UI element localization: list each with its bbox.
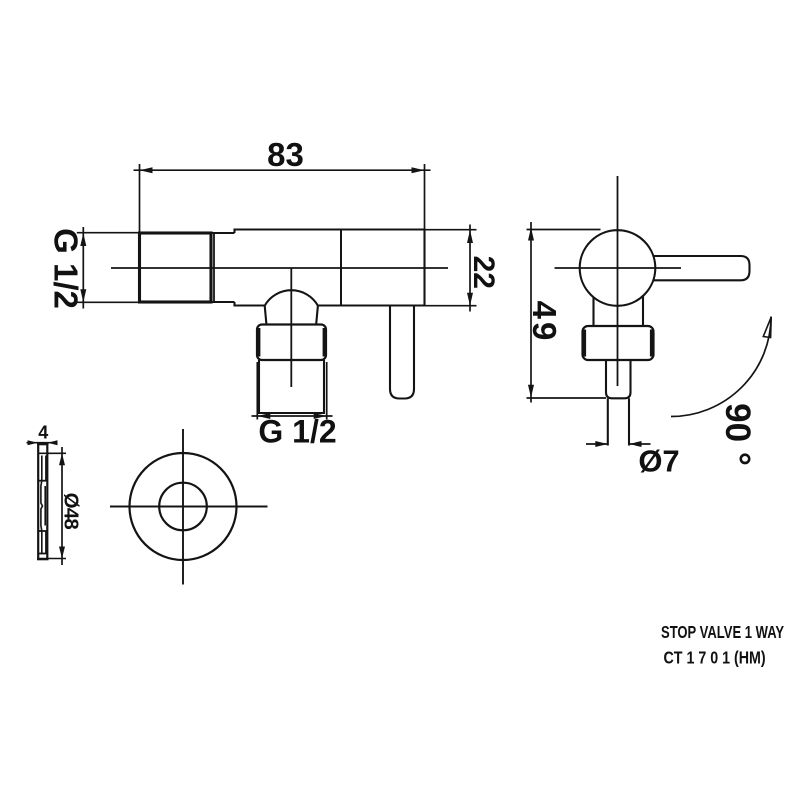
vertical centerline of outlet — [290, 268, 292, 387]
arrowhead 4 right — [48, 440, 58, 445]
inner column lower — [42, 531, 46, 554]
arrowhead Ø7 left — [595, 441, 608, 447]
nut right thick edge — [650, 330, 654, 357]
dim line 22 — [469, 225, 471, 312]
stem right line — [642, 296, 644, 326]
dim line 49 — [530, 222, 532, 403]
flange top cap — [37, 443, 49, 445]
main body outline — [235, 230, 425, 306]
spindle right — [628, 398, 630, 445]
flange bottom cap — [37, 558, 49, 560]
arrowhead bottom right — [314, 413, 327, 419]
nut left thick edge — [257, 328, 261, 357]
dim arrow line right — [629, 443, 651, 445]
extension line Ø48 top — [39, 452, 66, 454]
extension line 83 left — [139, 164, 141, 233]
dim line G1/2 bottom — [252, 415, 333, 417]
crosshair vertical — [182, 429, 184, 585]
extension line 22 bottom — [425, 305, 477, 307]
small outlet pipe (side view) — [390, 306, 414, 399]
horizontal centerline — [111, 267, 448, 269]
dim line G1/2 left — [82, 227, 84, 309]
lever handle — [653, 256, 750, 280]
arrowhead Ø48 bottom — [59, 547, 65, 559]
svg-text:83: 83 — [267, 136, 304, 173]
extension line 49 top — [527, 229, 601, 231]
crosshair horizontal — [110, 506, 268, 508]
arrowhead G1/2 top — [80, 233, 86, 246]
svg-text:CT 1 7 0 1 (HM): CT 1 7 0 1 (HM) — [664, 649, 766, 668]
arrowhead 49 bottom — [528, 385, 534, 398]
extension line Ø48 bottom — [39, 558, 66, 560]
arrowhead 83 right — [412, 167, 425, 173]
svg-text:22: 22 — [467, 256, 500, 289]
divider lower — [38, 530, 47, 532]
svg-text:90 °: 90 ° — [718, 403, 757, 466]
extension line 22 top — [425, 229, 477, 231]
arc 90deg — [671, 317, 771, 417]
arrowhead G1/2 bottom — [80, 289, 86, 302]
arrowhead Ø48 top — [59, 453, 65, 465]
dim line Ø48 — [61, 447, 63, 565]
arrowhead 4 left — [28, 440, 38, 445]
chamfer line right of threaded section — [213, 233, 215, 302]
inner circle — [159, 483, 207, 531]
neck bottom line — [211, 301, 235, 303]
flange right edge — [46, 444, 48, 561]
extension line G1/2 bottom — [77, 301, 140, 303]
dim arrow line left — [586, 443, 608, 445]
extension line bottom-right — [326, 362, 328, 420]
nut left thick edge — [582, 330, 586, 357]
svg-text:G 1/2: G 1/2 — [258, 414, 336, 450]
nut right thick edge — [323, 328, 327, 357]
extension line bottom-left — [256, 362, 258, 420]
horizontal centerline — [555, 267, 682, 269]
svg-text:STOP VALVE 1 WAY: STOP VALVE 1 WAY — [661, 623, 785, 642]
svg-text:G 1/2: G 1/2 — [48, 228, 85, 309]
arrowhead 83 left — [140, 167, 153, 173]
extension line G1/2 top — [77, 232, 140, 234]
spindle left — [607, 398, 609, 445]
svg-text:4: 4 — [38, 423, 48, 443]
nut front view — [583, 326, 654, 360]
neck top line — [211, 232, 235, 234]
knob circle — [580, 230, 656, 306]
svg-text:Ø48: Ø48 — [60, 493, 83, 530]
svg-text:Ø7: Ø7 — [638, 444, 679, 479]
arrowhead Ø7 right — [629, 441, 642, 447]
flange left edge — [37, 444, 39, 561]
dome right side — [316, 306, 318, 324]
svg-text:49: 49 — [526, 301, 563, 344]
threaded inlet section (thick rect) — [140, 233, 212, 302]
outlet dome arc — [265, 290, 318, 305]
inner column middle — [41, 481, 45, 531]
dome left side — [265, 306, 267, 324]
inner column upper — [42, 456, 46, 481]
arrowhead 22 bottom — [467, 293, 473, 306]
divider upper — [38, 480, 47, 482]
divider bottom — [38, 553, 47, 555]
body joint line — [340, 230, 342, 306]
vertical centerline — [617, 176, 619, 386]
outlet nut — [257, 325, 326, 361]
extension line 49 bottom — [527, 397, 607, 399]
arrowhead 49 top — [528, 228, 534, 241]
arrowhead 22 top — [467, 230, 473, 243]
extension line 83 right — [424, 164, 426, 230]
stem left line — [592, 297, 594, 326]
tube below nut — [606, 360, 631, 398]
dim line 4 — [27, 442, 58, 444]
arrowhead bottom left — [257, 413, 270, 419]
dim line 83 — [134, 169, 431, 171]
outlet lower connector — [259, 360, 324, 413]
open arrowhead — [763, 317, 771, 338]
outer circle — [130, 453, 237, 560]
